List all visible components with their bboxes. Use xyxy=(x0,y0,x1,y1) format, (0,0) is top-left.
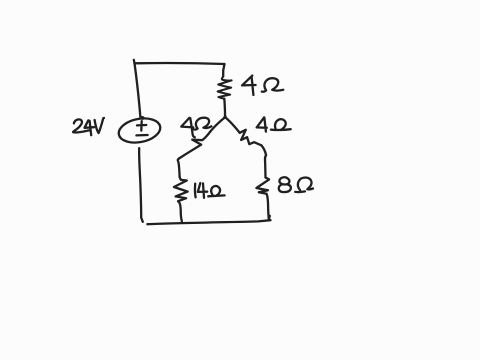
wire battery bottom to lower left corner xyxy=(139,148,143,222)
wire R5 to bottom corner xyxy=(267,194,270,220)
resistor R3 4ohm right diagonal zigzag xyxy=(240,130,262,146)
label 8 ohm : omega underline xyxy=(295,190,305,193)
label 14 ohm : omega underline xyxy=(208,194,224,197)
label 8 ohm : omega loop xyxy=(298,177,313,190)
wire R4 to bottom xyxy=(178,201,182,221)
knot at battery top xyxy=(140,117,144,119)
label 4 ohm (mid-right) : digit 4 xyxy=(257,117,267,131)
wire node to left diagonal xyxy=(210,117,225,132)
resistor R4 14ohm zigzag xyxy=(174,177,188,201)
label 4 ohm (mid-right) : omega underline xyxy=(271,128,291,131)
voltage source V1 24V ellipse xyxy=(117,115,163,146)
wire left vertical (top corner to battery top) xyxy=(135,63,141,117)
label 4 ohm (mid-left) : digit 4 xyxy=(181,118,195,137)
wire bottom horizontal xyxy=(147,220,270,224)
label 14 ohm : digit 1 xyxy=(194,184,197,198)
label 24V : digit 4 xyxy=(85,120,95,135)
wire hook to left lower branch xyxy=(178,158,180,176)
label 24V : letter V xyxy=(95,118,104,133)
label 4 ohm (mid-right) : omega loop xyxy=(275,119,286,129)
resistor R5 8ohm zigzag xyxy=(256,178,269,194)
wire to right lower branch with hook xyxy=(261,145,266,177)
wire top horizontal xyxy=(134,60,225,64)
wire right top corner down to R1 xyxy=(223,64,224,77)
resistor R1 4ohm top right zigzag xyxy=(218,76,232,98)
node junction xyxy=(223,115,226,118)
label 14 ohm : omega loop xyxy=(211,186,220,195)
voltage source plus sign xyxy=(137,121,146,130)
label 14 ohm : digit 4 xyxy=(198,183,207,198)
wire R1 to node xyxy=(223,99,226,117)
label 8 ohm : digit 8 xyxy=(279,177,291,192)
label 24V : digit 2 xyxy=(73,119,89,132)
label 4 ohm (top) : omega xyxy=(262,78,284,92)
wire node to right diagonal xyxy=(225,117,240,133)
voltage source minus sign xyxy=(136,134,147,137)
label 4 ohm (mid-left) : omega xyxy=(194,118,212,130)
label 4 ohm (top) : digit 4 xyxy=(242,76,256,95)
resistor R2 4ohm left diagonal zigzag xyxy=(179,132,210,159)
